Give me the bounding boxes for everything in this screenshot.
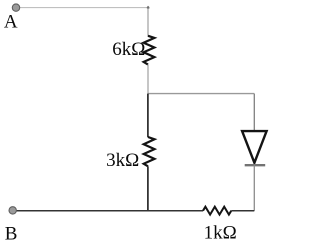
terminal B bbox=[9, 207, 16, 214]
wire: top from A to vertical bbox=[20, 7, 148, 9]
resistor R 3k zigzag bbox=[144, 137, 155, 166]
svg-text:6kΩ: 6kΩ bbox=[112, 39, 145, 60]
wire: bottom from B to 1k resistor bbox=[16, 210, 203, 212]
wire: tick above top corner bbox=[147, 6, 149, 9]
resistor R 1k zigzag bbox=[203, 207, 231, 215]
wire: vertical down to 6k resistor bbox=[147, 8, 149, 37]
svg-text:3kΩ: 3kΩ bbox=[106, 150, 139, 171]
wire: vertical from 3k to bottom wire bbox=[147, 166, 149, 211]
diode D1 triangle bbox=[242, 131, 267, 163]
svg-text:B: B bbox=[5, 223, 18, 244]
svg-text:1kΩ: 1kΩ bbox=[204, 223, 237, 244]
wire: horizontal branch junction to diode column bbox=[148, 93, 254, 95]
wire: vertical from diode to bottom wire bbox=[253, 165, 255, 211]
junction dot top corner bbox=[147, 6, 150, 9]
svg-text:A: A bbox=[4, 12, 18, 33]
terminal A bbox=[12, 4, 19, 11]
wire: bottom right from 1k to diode column bbox=[231, 210, 254, 212]
wire: vertical from 6k to junction bbox=[147, 65, 149, 94]
wire: vertical down to diode bbox=[253, 94, 255, 132]
diode D1 cathode bar bbox=[245, 164, 266, 166]
resistor R 6k zigzag bbox=[144, 36, 155, 65]
wire: vertical black junction to 3k resistor bbox=[147, 94, 149, 138]
